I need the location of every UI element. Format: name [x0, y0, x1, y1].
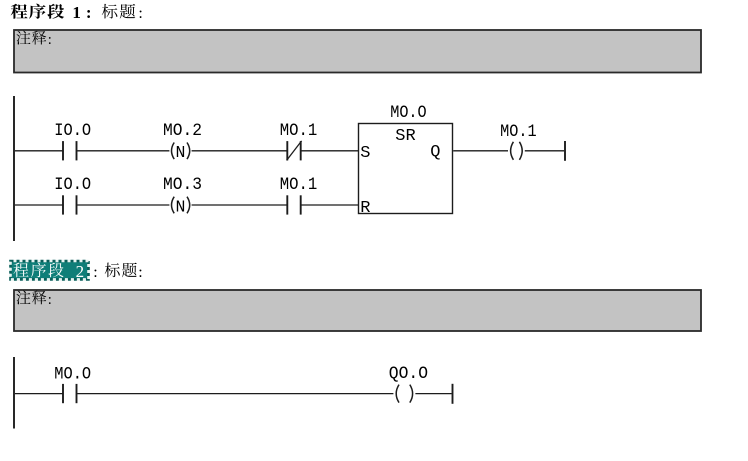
svg-text:R: R [360, 199, 370, 218]
svg-text:IO.O: IO.O [54, 121, 91, 141]
svg-text:S: S [360, 144, 370, 163]
svg-text:2: 2 [76, 262, 85, 281]
svg-text:Q: Q [430, 143, 440, 162]
svg-text:N: N [175, 143, 185, 162]
svg-text::: : [138, 5, 142, 22]
svg-text::: : [48, 32, 52, 48]
svg-text::: : [48, 292, 52, 308]
svg-text:MO.2: MO.2 [163, 121, 202, 141]
svg-text:MO.O: MO.O [390, 103, 427, 123]
svg-text:1: 1 [72, 3, 81, 22]
svg-text::: : [138, 264, 142, 281]
svg-text:MO.1: MO.1 [280, 121, 318, 141]
svg-text:MO.O: MO.O [54, 364, 91, 384]
svg-text:QO.O: QO.O [389, 364, 428, 384]
svg-text:IO.O: IO.O [54, 175, 91, 195]
svg-text:SR: SR [395, 127, 415, 146]
svg-text::: : [93, 264, 97, 281]
svg-text:MO.3: MO.3 [163, 175, 202, 195]
svg-text:MO.1: MO.1 [500, 122, 536, 142]
svg-text:N: N [175, 197, 185, 216]
svg-text::: : [86, 3, 92, 22]
svg-text:MO.1: MO.1 [280, 175, 318, 195]
